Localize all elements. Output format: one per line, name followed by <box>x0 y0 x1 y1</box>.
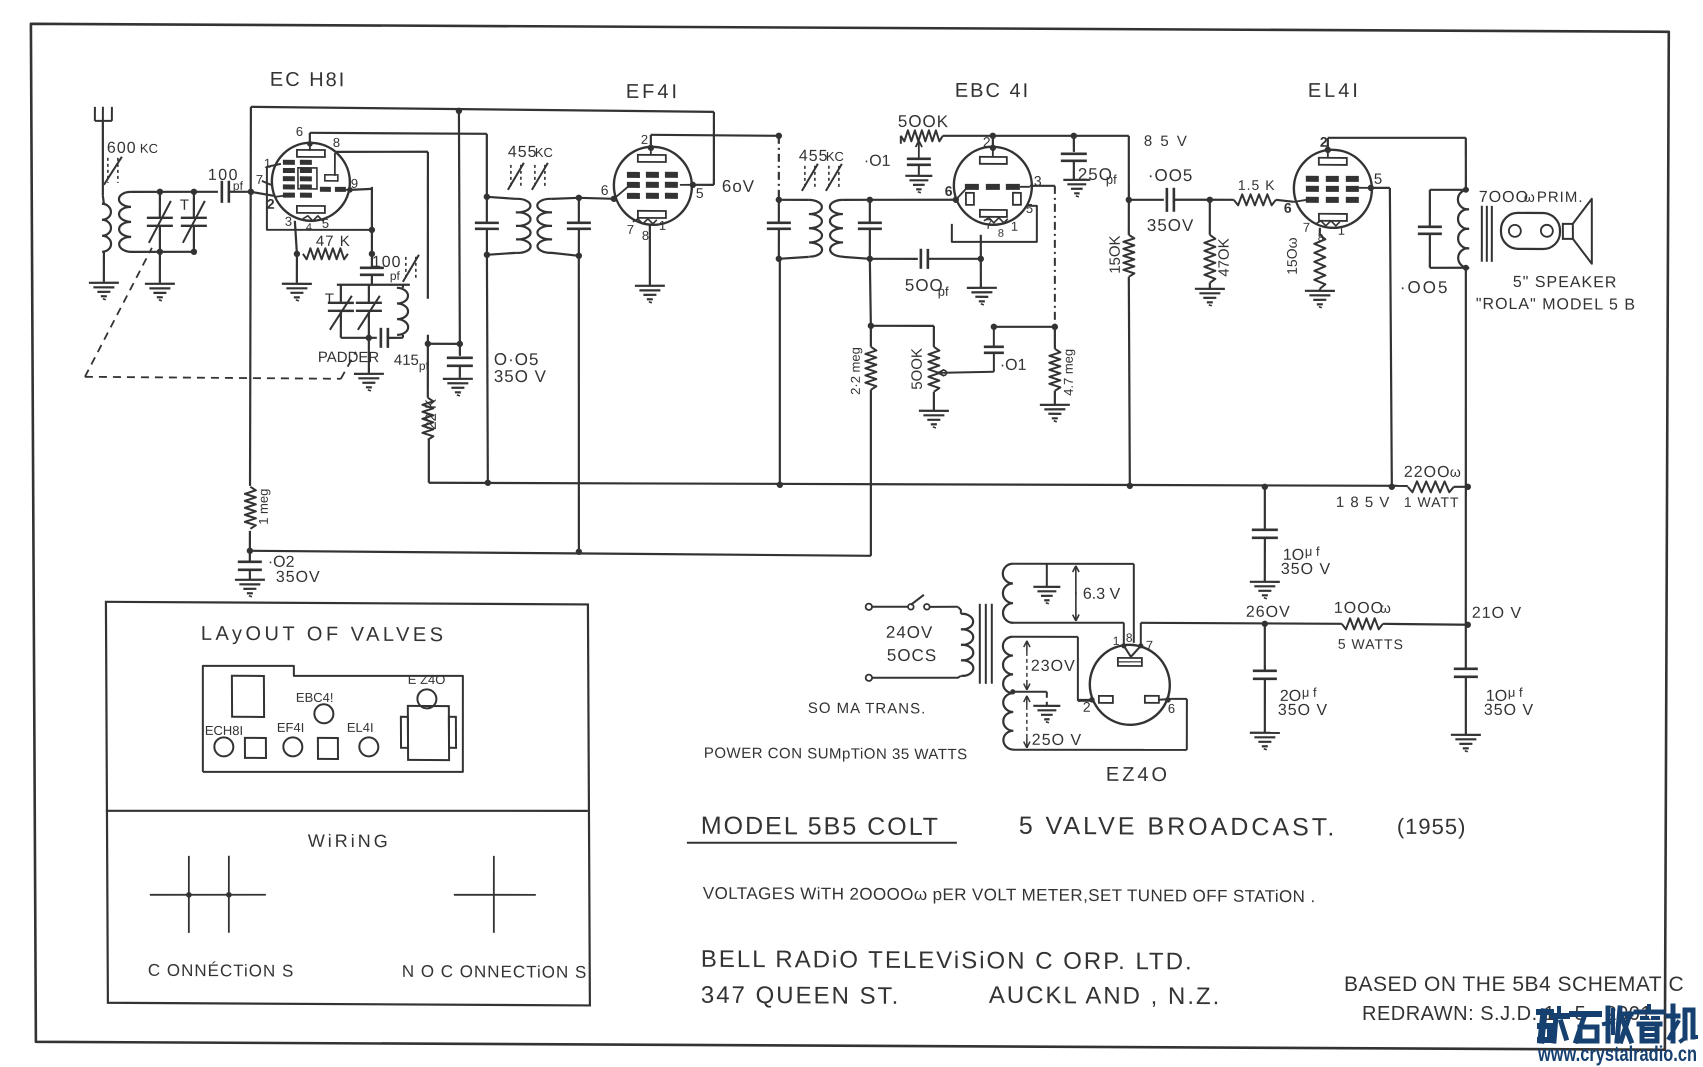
svg-text:EF4I: EF4I <box>277 720 305 735</box>
svg-text:1: 1 <box>1011 219 1018 234</box>
svg-text:5OCS: 5OCS <box>887 646 937 665</box>
svg-text:ω: ω <box>1380 600 1391 616</box>
svg-text:PRIM.: PRIM. <box>1537 189 1584 206</box>
svg-text:1: 1 <box>1113 634 1120 648</box>
svg-text:5: 5 <box>1374 171 1382 188</box>
svg-text:4.7 meg: 4.7 meg <box>1061 349 1076 396</box>
svg-text:6oV: 6oV <box>722 177 755 196</box>
svg-text:2·2 meg: 2·2 meg <box>848 347 863 395</box>
svg-text:POWER CON SUMpTiON 35 WATTS: POWER CON SUMpTiON 35 WATTS <box>704 745 968 763</box>
svg-text:pf: pf <box>233 179 244 193</box>
svg-text:35OV: 35OV <box>276 569 321 586</box>
svg-text:35O V: 35O V <box>1278 702 1328 719</box>
svg-text:ω: ω <box>1524 189 1535 205</box>
svg-text:6.3 V: 6.3 V <box>1083 586 1121 603</box>
svg-text:7OOO: 7OOO <box>1479 189 1529 206</box>
svg-text:26OV: 26OV <box>1246 604 1291 621</box>
svg-text:μ f: μ f <box>1508 685 1523 700</box>
svg-text:7: 7 <box>627 222 634 237</box>
svg-text:8 5 V: 8 5 V <box>1144 133 1189 150</box>
svg-text:7: 7 <box>256 172 263 187</box>
svg-text:35O V: 35O V <box>1484 702 1534 719</box>
svg-text:1 meg: 1 meg <box>256 489 271 525</box>
svg-text:600: 600 <box>107 140 137 157</box>
svg-text:E Z4O: E Z4O <box>408 672 446 687</box>
svg-text:5: 5 <box>322 216 329 231</box>
svg-text:N O C ONNECTiON S: N O C ONNECTiON S <box>402 962 588 982</box>
svg-text:EL4I: EL4I <box>1308 80 1361 102</box>
svg-text:ω: ω <box>1450 464 1461 480</box>
svg-text:35OV: 35OV <box>1147 216 1195 235</box>
svg-text:AUCKL AND , N.Z.: AUCKL AND , N.Z. <box>989 982 1222 1010</box>
svg-text:T: T <box>180 197 189 214</box>
svg-text:EBC 4I: EBC 4I <box>955 80 1030 102</box>
svg-text:8: 8 <box>998 228 1004 240</box>
svg-text:KC: KC <box>826 149 844 164</box>
svg-text:EBC4!: EBC4! <box>296 690 334 705</box>
svg-text:LAyOUT OF VALVES: LAyOUT OF VALVES <box>201 623 447 646</box>
svg-text:7: 7 <box>985 216 993 232</box>
svg-text:2: 2 <box>267 196 275 212</box>
svg-text:μ f: μ f <box>1305 544 1320 559</box>
svg-text:KC: KC <box>535 145 553 160</box>
svg-text:7: 7 <box>1146 638 1153 653</box>
svg-text:BELL RADiO TELEViSiON C ORP.: BELL RADiO TELEViSiON C ORP. LTD. <box>701 946 1194 976</box>
svg-text:455: 455 <box>508 144 538 161</box>
svg-text:5OOK: 5OOK <box>898 112 949 131</box>
svg-text:KC: KC <box>140 141 158 156</box>
svg-text:455: 455 <box>799 148 829 165</box>
svg-text:15Oω: 15Oω <box>1284 237 1300 275</box>
svg-text:5: 5 <box>1026 201 1033 216</box>
svg-text:5" SPEAKER: 5" SPEAKER <box>1513 274 1618 292</box>
svg-text:·OO5: ·OO5 <box>1148 166 1194 185</box>
svg-text:BASED ON THE 5B4 SCHEMATIC: BASED ON THE 5B4 SCHEMATIC <box>1344 973 1684 996</box>
svg-text:3: 3 <box>1034 173 1042 189</box>
svg-text:7: 7 <box>1303 220 1310 235</box>
svg-text:·O1: ·O1 <box>864 153 891 170</box>
svg-text:1 WATT: 1 WATT <box>1404 494 1460 510</box>
svg-text:8: 8 <box>333 135 340 150</box>
svg-text:T: T <box>325 291 334 308</box>
svg-text:5 VALVE BROADCAST.: 5 VALVE BROADCAST. <box>1019 812 1338 842</box>
svg-text:347 QUEEN ST.: 347 QUEEN ST. <box>701 982 901 1010</box>
svg-text:2: 2 <box>1083 699 1091 715</box>
svg-text:3: 3 <box>285 214 292 229</box>
svg-text:47 K: 47 K <box>316 233 351 250</box>
svg-text:1 8 5 V: 1 8 5 V <box>1336 494 1391 511</box>
svg-text:35O V: 35O V <box>1281 561 1331 578</box>
svg-text:47OK: 47OK <box>1216 238 1233 276</box>
svg-text:2: 2 <box>641 132 648 147</box>
svg-text:23OV: 23OV <box>1031 658 1076 675</box>
svg-text:WiRiNG: WiRiNG <box>308 831 391 851</box>
svg-text:1: 1 <box>1338 223 1345 238</box>
svg-text:22OO: 22OO <box>1404 464 1451 481</box>
svg-text:EC H8I: EC H8I <box>270 69 347 91</box>
svg-text:1: 1 <box>659 218 666 233</box>
svg-text:pf: pf <box>390 269 401 283</box>
svg-text:415: 415 <box>394 352 419 369</box>
svg-text:5OOK: 5OOK <box>909 348 926 390</box>
svg-text:6: 6 <box>296 124 303 139</box>
svg-text:25O V: 25O V <box>1032 732 1082 749</box>
svg-text:EF4I: EF4I <box>626 81 680 103</box>
svg-text:8: 8 <box>1126 631 1133 645</box>
svg-text:24OV: 24OV <box>886 623 934 642</box>
svg-text:1OOO: 1OOO <box>1334 600 1384 617</box>
svg-text:6: 6 <box>601 182 609 198</box>
svg-text:15OK: 15OK <box>1107 235 1124 273</box>
svg-text:VOLTAGES WiTH 2OOOOω pER VOLT: VOLTAGES WiTH 2OOOOω pER VOLT METER,SET … <box>703 884 1316 906</box>
svg-text:22 K: 22 K <box>423 399 440 430</box>
svg-text:5 WATTS: 5 WATTS <box>1338 636 1404 652</box>
svg-text:6: 6 <box>945 183 953 199</box>
svg-text:ECH8I: ECH8I <box>205 723 243 738</box>
svg-text:8: 8 <box>642 228 649 243</box>
svg-text:1.5 K: 1.5 K <box>1238 177 1276 193</box>
svg-text:4: 4 <box>306 222 312 234</box>
svg-text:·OO5: ·OO5 <box>1400 278 1450 297</box>
svg-text:EZ4O: EZ4O <box>1106 764 1170 786</box>
svg-text:"ROLA" MODEL 5 B: "ROLA" MODEL 5 B <box>1476 296 1636 314</box>
svg-text:21O V: 21O V <box>1472 605 1522 622</box>
svg-text:EL4I: EL4I <box>347 720 374 735</box>
svg-text:6: 6 <box>1168 701 1175 716</box>
svg-text:www.crystalradio.cn: www.crystalradio.cn <box>1537 1043 1697 1066</box>
svg-text:μ f: μ f <box>1302 685 1317 700</box>
svg-text:35O V: 35O V <box>494 367 547 386</box>
svg-text:5: 5 <box>696 185 704 201</box>
svg-text:pf: pf <box>938 284 949 299</box>
svg-text:·O1: ·O1 <box>1000 357 1027 374</box>
svg-text:(1955): (1955) <box>1397 814 1467 839</box>
svg-text:6: 6 <box>1284 200 1292 216</box>
svg-text:C ONNÉCTiON S: C ONNÉCTiON S <box>148 961 295 981</box>
svg-text:SO MA TRANS.: SO MA TRANS. <box>808 700 927 718</box>
svg-text:MODEL 5B5 COLT: MODEL 5B5 COLT <box>701 812 940 841</box>
svg-text:pf: pf <box>1106 172 1117 187</box>
